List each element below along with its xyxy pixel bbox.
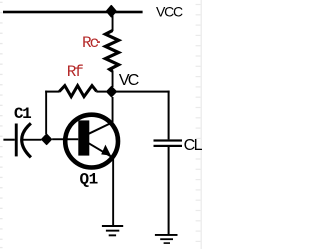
transistor Q1 collector diagonal: [89, 122, 113, 134]
wire VC node to Rf: [96, 91, 106, 93]
transistor Q1 circle: [65, 115, 118, 168]
ruler ticks left edge: [0, 2, 3, 249]
svg-text:VCC: VCC: [156, 4, 183, 20]
node VC junction dot: [107, 87, 117, 97]
node VCC junction dot: [107, 6, 117, 17]
resistor Rc: [105, 31, 118, 72]
wire VC node to CL branch: [114, 91, 170, 93]
svg-text:VC: VC: [119, 72, 139, 89]
wire Rf corner vertical down to base node: [45, 91, 47, 135]
transistor Q1 emitter arrow: [101, 145, 111, 156]
wire Rc to VC node: [112, 71, 114, 88]
wire collector vertical: [112, 97, 114, 123]
svg-text:Rc: Rc: [82, 34, 99, 52]
ground (left, emitter): [102, 225, 123, 236]
ground (right, below CL): [155, 234, 178, 244]
transistor Q1 emitter diagonal: [89, 143, 114, 158]
node base junction dot: [42, 134, 52, 144]
wire Rf corner horizontal: [45, 91, 60, 93]
wire emitter to ground: [112, 157, 114, 225]
wire CL branch vertical upper: [168, 91, 170, 140]
wire base node to Q1 base: [52, 138, 78, 140]
wire VCC dot to Rc: [112, 13, 114, 31]
resistor Rf: [59, 86, 96, 97]
wire CL to ground: [168, 147, 170, 234]
svg-text:Q1: Q1: [80, 171, 99, 189]
capacitor CL: [154, 139, 183, 141]
wire VCC rail: [3, 11, 143, 14]
wire C1 to base node: [23, 139, 41, 141]
transistor Q1 base bar: [78, 120, 89, 155]
svg-text:Rf: Rf: [67, 63, 84, 81]
svg-text:C1: C1: [14, 105, 32, 123]
svg-text:CL: CL: [184, 137, 203, 154]
capacitor C1: [3, 139, 14, 141]
ruler line + ticks right edge: [196, 0, 202, 249]
